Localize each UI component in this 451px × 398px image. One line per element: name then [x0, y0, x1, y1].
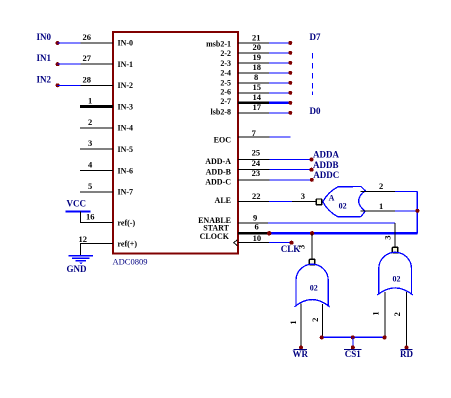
svg-text:18: 18 [253, 62, 262, 72]
gate G2 output bubble [309, 259, 315, 265]
pin name 2-2 [220, 49, 231, 58]
wire pin7 EOC [238, 136, 291, 138]
svg-text:EOC: EOC [214, 135, 232, 144]
pin number 25 [252, 148, 261, 158]
junction dot IN2 [56, 83, 60, 87]
svg-text:3: 3 [301, 191, 305, 201]
wire G3 input pin1 down to CS net [384, 292, 386, 337]
pin name IN-4 [118, 124, 134, 133]
svg-text:D0: D0 [310, 106, 321, 116]
wire VCC to pin16 [81, 212, 113, 223]
svg-text:22: 22 [252, 191, 261, 201]
gate G1 output bubble [316, 199, 322, 205]
svg-text:IN0: IN0 [37, 32, 52, 42]
svg-text:02: 02 [310, 283, 318, 292]
svg-text:10: 10 [253, 233, 262, 243]
pin name 2-3 [220, 59, 231, 68]
gate G1 pin number 1 [379, 201, 383, 211]
pin number 19 [253, 52, 262, 62]
svg-text:msb2-1: msb2-1 [206, 39, 231, 48]
wire IN2 blue segment [58, 84, 81, 86]
wire pin14 thick [238, 101, 290, 104]
svg-text:2-6: 2-6 [220, 87, 231, 96]
node ADDB label [313, 160, 339, 170]
junction dot pin20 [288, 51, 292, 55]
gate G1 label A [329, 194, 335, 203]
svg-text:IN2: IN2 [37, 74, 52, 84]
svg-text:5: 5 [88, 181, 92, 191]
pin number 23 [252, 168, 261, 178]
node ADDA label [313, 149, 339, 159]
pin number 7 [252, 128, 257, 138]
svg-text:ADDC: ADDC [313, 170, 339, 180]
svg-text:19: 19 [253, 52, 262, 62]
svg-text:2-2: 2-2 [220, 49, 231, 58]
nor gate G1 (7402 unit, pointing left) [323, 187, 365, 217]
svg-text:8: 8 [254, 72, 258, 82]
node D0 label [310, 106, 321, 116]
gate G1 output pin number 3 [301, 191, 305, 201]
svg-text:ALE: ALE [215, 196, 231, 205]
gate G2 pin number 1 (rotated) [288, 320, 298, 324]
wire pin21 D7 [238, 42, 290, 44]
junction dot CS net left [320, 335, 324, 339]
pin name IN-6 [118, 166, 134, 175]
wire pin8 [238, 82, 290, 84]
node CS1 label with overline [344, 349, 362, 359]
wire pin20 [238, 52, 290, 54]
pin name EOC [214, 135, 232, 144]
svg-text:26: 26 [83, 32, 92, 42]
gate G3 pin number 1 (rotated) [371, 311, 381, 315]
svg-text:IN-0: IN-0 [118, 39, 134, 48]
svg-text:02: 02 [339, 202, 347, 211]
junction dot pin8 [288, 81, 292, 85]
svg-text:RD: RD [400, 349, 413, 359]
pin number 6 [255, 222, 259, 232]
pin name 2-6 [220, 87, 231, 96]
svg-text:ADDB: ADDB [313, 160, 339, 170]
svg-text:ADD-B: ADD-B [206, 168, 232, 177]
pin number 12 [79, 234, 88, 244]
wire G2 input pin1 to WR [300, 304, 302, 348]
svg-text:1: 1 [371, 311, 381, 315]
svg-text:14: 14 [253, 92, 262, 102]
pin number 4 [88, 160, 93, 170]
svg-text:12: 12 [79, 234, 88, 244]
svg-text:IN-1: IN-1 [118, 60, 134, 69]
wire pin5 black segment [80, 191, 113, 193]
wire pin2 black segment [80, 127, 113, 129]
pin number 3 [88, 138, 92, 148]
svg-text:2-7: 2-7 [220, 97, 231, 106]
junction dot pin14 [288, 101, 292, 105]
junction dot RD [405, 346, 409, 350]
pin name START [203, 224, 229, 233]
pin number 2 [88, 117, 92, 127]
pin name CLOCK [200, 232, 230, 241]
wire vertical tie G1 inputs to START line [416, 191, 418, 233]
gate G1 pin number 2 [379, 181, 383, 191]
svg-text:24: 24 [252, 158, 261, 168]
pin number 5 [88, 181, 92, 191]
svg-text:21: 21 [252, 32, 261, 42]
wire pin4 black segment [80, 170, 113, 172]
svg-text:ADDA: ADDA [313, 149, 339, 159]
power symbol VCC [66, 199, 91, 212]
svg-text:15: 15 [253, 82, 262, 92]
junction dot G1 pin1 tie [415, 209, 419, 213]
gate G1 label 02 [339, 202, 347, 211]
pin number 22 [252, 191, 261, 201]
pin number 10 [253, 233, 262, 243]
wire pin27 black segment [81, 63, 114, 65]
svg-text:GND: GND [67, 264, 88, 274]
gate G3 output pin number 3 (rotated) [383, 235, 393, 239]
pin name msb2-1 [206, 39, 231, 48]
svg-text:2: 2 [310, 318, 320, 322]
pin name 2-4 [220, 69, 231, 78]
wire pin6 START thick [238, 232, 417, 235]
svg-text:lsb2-8: lsb2-8 [211, 108, 231, 117]
pin name lsb2-8 [211, 108, 231, 117]
junction dot CLK [290, 241, 294, 245]
svg-text:3: 3 [383, 235, 393, 239]
svg-text:VCC: VCC [67, 199, 87, 209]
node D7 label [310, 32, 321, 42]
wire pin9 ENABLE [238, 222, 395, 224]
gate G2 pin number 2 (rotated) [310, 318, 320, 322]
junction dot IN0 [56, 41, 60, 45]
junction dot CS1 [351, 346, 355, 350]
wire pin3 black segment [80, 148, 113, 150]
pin name ref(+) [118, 240, 138, 249]
wire IN1 blue segment [58, 63, 81, 65]
svg-text:CS1: CS1 [345, 349, 362, 359]
junction dot pin19 [288, 61, 292, 65]
svg-text:16: 16 [86, 212, 95, 222]
svg-text:WR: WR [292, 349, 308, 359]
pin name IN-0 [118, 39, 134, 48]
wire G2 output to START line [311, 233, 313, 259]
wire pin23 ADDC [238, 179, 312, 181]
svg-text:D7: D7 [310, 32, 321, 42]
wire CS net horizontal [322, 336, 385, 338]
wire IN0 blue segment [58, 42, 81, 44]
pin number 1 [88, 96, 92, 106]
node RD label with overline [400, 349, 413, 359]
nor gate G3 (7402 unit, pointing up) [377, 252, 413, 295]
pin name IN-5 [118, 145, 134, 154]
pin number 26 [83, 32, 92, 42]
pin name ADD-B [206, 168, 232, 177]
ground symbol GND [67, 256, 94, 274]
pin number 28 [83, 74, 92, 84]
gate G3 pin number 2 (rotated) [392, 312, 402, 316]
svg-text:2: 2 [88, 117, 92, 127]
pin name 2-5 [220, 78, 231, 87]
pin number 15 [253, 82, 262, 92]
clock input arrow on CLOCK pin [234, 240, 238, 246]
wire pin1 thick black segment [80, 105, 113, 108]
dashed bus line between D7 and D0 [312, 53, 314, 95]
svg-text:1: 1 [88, 96, 92, 106]
nor gate G2 (7402 unit, pointing up) [295, 264, 330, 307]
svg-text:ref(-): ref(-) [118, 219, 136, 228]
pin number 16 [86, 212, 95, 222]
svg-text:3: 3 [88, 138, 92, 148]
wire pin24 ADDB [238, 169, 312, 171]
wire CS1 stub [352, 337, 354, 347]
pin number 21 [252, 32, 261, 42]
pin name ALE [215, 196, 231, 205]
pin name 2-7 [220, 97, 231, 106]
pin name IN-3 [118, 102, 134, 111]
gate G3 label 02 [393, 274, 401, 283]
wire G2 input pin2 down to CS net [321, 304, 324, 338]
svg-text:A: A [329, 194, 335, 203]
svg-text:ADD-A: ADD-A [205, 157, 231, 166]
pin name ADD-C [205, 178, 231, 187]
svg-text:2-3: 2-3 [220, 59, 231, 68]
junction dot ADDC [310, 178, 314, 182]
svg-text:23: 23 [252, 168, 261, 178]
junction dot IN1 [56, 62, 60, 66]
node CLK label [281, 244, 301, 254]
svg-text:1: 1 [288, 320, 298, 324]
wire G3 input pin2 to RD [406, 292, 408, 348]
junction dot pin17 [288, 111, 292, 115]
svg-text:02: 02 [393, 274, 401, 283]
pin name IN-7 [118, 188, 134, 197]
junction dot START at G2 output [310, 231, 314, 235]
pin number 18 [253, 62, 262, 72]
junction dot ADDB [310, 168, 314, 172]
svg-text:IN-5: IN-5 [118, 145, 134, 154]
junction dot START at x269 [267, 231, 271, 235]
wire pin12 to ground [81, 244, 113, 256]
pin number 17 [253, 102, 262, 112]
svg-text:2-4: 2-4 [220, 69, 231, 78]
pin number 24 [252, 158, 261, 168]
junction dot CS net right [383, 335, 387, 339]
pin number 14 [253, 92, 262, 102]
svg-text:27: 27 [83, 53, 92, 63]
svg-text:IN-3: IN-3 [118, 102, 134, 111]
junction dot CS net middle [351, 335, 355, 339]
pin number 8 [254, 72, 258, 82]
wire pin22 ALE to gate G1 output [238, 200, 316, 202]
junction dot ADDA [310, 158, 314, 162]
svg-text:IN-4: IN-4 [118, 124, 134, 133]
wire pin28 black segment [81, 84, 114, 86]
svg-text:IN1: IN1 [37, 53, 52, 63]
svg-text:2: 2 [379, 181, 383, 191]
chip label ADC0809 [113, 257, 148, 267]
svg-text:ref(+): ref(+) [118, 240, 138, 249]
svg-text:17: 17 [253, 102, 262, 112]
pin name IN-1 [118, 60, 134, 69]
pin name ADD-A [205, 157, 231, 166]
node ADDC label [313, 170, 339, 180]
svg-text:6: 6 [255, 222, 259, 232]
pin number 20 [253, 42, 262, 52]
svg-text:2: 2 [392, 312, 402, 316]
wire pin18 [238, 72, 290, 74]
svg-text:IN-6: IN-6 [118, 166, 134, 175]
svg-text:ADD-C: ADD-C [205, 178, 231, 187]
junction dot WR [299, 346, 303, 350]
gate G2 label 02 [310, 283, 318, 292]
wire G1 input pin2 [361, 190, 418, 192]
wire pin26 black segment [81, 42, 114, 44]
gate G2 output pin number 3 (rotated) [296, 245, 306, 249]
svg-text:3: 3 [296, 245, 306, 249]
svg-text:IN-7: IN-7 [118, 188, 134, 197]
svg-text:20: 20 [253, 42, 262, 52]
chip U1 ADC0809 body [113, 32, 238, 254]
pin name IN-2 [118, 81, 134, 90]
svg-text:28: 28 [83, 74, 92, 84]
junction dot pin15 [288, 91, 292, 95]
wire G1 input pin1 [361, 210, 418, 212]
svg-text:CLOCK: CLOCK [200, 232, 230, 241]
node IN0 label [37, 32, 52, 42]
svg-text:ADC0809: ADC0809 [113, 257, 148, 267]
wire pin15 [238, 92, 290, 94]
pin number 9 [253, 213, 257, 223]
gate G3 output bubble [392, 247, 398, 253]
svg-text:25: 25 [252, 148, 261, 158]
pin name ENABLE [198, 216, 231, 225]
pin name ref(-) [118, 219, 136, 228]
node IN1 label [37, 53, 52, 63]
junction dot pin18 [288, 71, 292, 75]
wire ENABLE down to gate G3 output [394, 223, 396, 247]
svg-text:2-5: 2-5 [220, 78, 231, 87]
svg-text:7: 7 [252, 128, 257, 138]
wire pin25 ADDA [238, 159, 312, 161]
wire pin17 [238, 112, 290, 114]
svg-text:1: 1 [379, 201, 383, 211]
svg-text:IN-2: IN-2 [118, 81, 134, 90]
node IN2 label [37, 74, 52, 84]
junction dot pin21 [288, 41, 292, 45]
wire pin10 CLOCK [238, 242, 292, 244]
pin number 27 [83, 53, 92, 63]
wire pin19 [238, 62, 290, 64]
node WR label with overline [292, 349, 308, 359]
